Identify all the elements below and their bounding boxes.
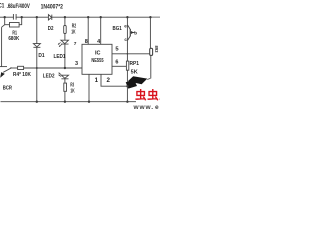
svg-text:1K: 1K [70, 89, 74, 95]
svg-text:8: 8 [85, 39, 88, 45]
svg-text:w: w [145, 104, 152, 110]
svg-text:虫虫虫: 虫虫虫 [135, 88, 160, 102]
svg-text:5K: 5K [131, 70, 138, 76]
svg-text:R2: R2 [72, 24, 76, 30]
svg-text:R4* 10K: R4* 10K [13, 72, 31, 78]
svg-text:1K: 1K [71, 29, 75, 35]
svg-text:1N4007*2: 1N4007*2 [41, 5, 64, 11]
svg-text:D1: D1 [38, 53, 44, 59]
svg-text:.: . [151, 104, 153, 110]
svg-text:3: 3 [75, 61, 78, 67]
svg-text:RP1: RP1 [130, 61, 140, 67]
svg-text:R1: R1 [12, 30, 17, 36]
svg-text:b: b [134, 30, 137, 35]
svg-text:BG1: BG1 [113, 26, 122, 32]
svg-text:R3: R3 [70, 83, 74, 89]
svg-text:e: e [155, 104, 159, 110]
svg-text:NE555: NE555 [91, 58, 103, 64]
svg-text:1: 1 [95, 77, 99, 84]
svg-text:LED2: LED2 [43, 74, 55, 80]
svg-text:D2: D2 [48, 26, 54, 32]
svg-text:C1: C1 [0, 4, 5, 10]
svg-text:2: 2 [107, 77, 111, 84]
svg-text:IC: IC [95, 51, 101, 57]
svg-text:BCR: BCR [3, 85, 12, 91]
svg-text:6: 6 [115, 59, 118, 65]
svg-text:LED1: LED1 [54, 54, 66, 60]
svg-text:.68uF/400V: .68uF/400V [7, 4, 30, 10]
svg-text:w: w [139, 104, 146, 110]
svg-text:680K: 680K [8, 36, 19, 42]
svg-text:w: w [133, 104, 140, 110]
svg-text:893: 893 [154, 46, 159, 54]
